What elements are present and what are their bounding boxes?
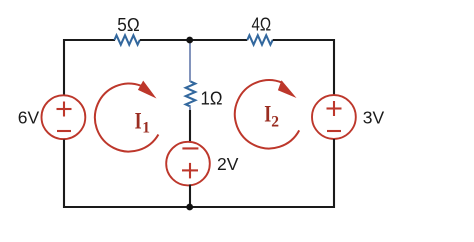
mesh current I2 arrowhead <box>278 80 297 98</box>
wire left lower <box>63 140 65 209</box>
6V minus sign <box>57 130 71 132</box>
wire middle (resistor to 2V source) <box>189 110 191 142</box>
3V minus sign <box>327 130 341 132</box>
wire left upper <box>63 39 65 96</box>
svg-text:I: I <box>135 108 142 133</box>
wire bottom <box>63 206 335 208</box>
svg-text:6V: 6V <box>18 108 40 128</box>
resistor 4Ω zigzag <box>247 35 272 44</box>
mesh current I2 arc <box>235 80 299 148</box>
node top junction dot <box>186 37 193 44</box>
resistor 5Ω zigzag <box>114 35 139 44</box>
3V plus sign <box>327 107 342 109</box>
mesh current I1 arrowhead <box>138 81 157 99</box>
wire middle (2V source to bottom node) <box>189 185 191 208</box>
wire top-middle segment <box>140 39 248 41</box>
svg-text:I: I <box>264 101 271 126</box>
svg-text:2V: 2V <box>217 154 239 174</box>
2V plus sign <box>182 169 198 171</box>
svg-text:1Ω: 1Ω <box>201 89 223 109</box>
wire top-right segment <box>273 39 335 41</box>
wire middle lead (blue) <box>189 41 191 82</box>
node bottom junction dot <box>186 204 193 211</box>
mesh current I1 arc <box>95 84 158 152</box>
wire right upper <box>333 39 335 95</box>
wire right lower <box>333 139 335 208</box>
svg-text:4Ω: 4Ω <box>252 15 272 35</box>
svg-text:3V: 3V <box>363 108 385 128</box>
voltage source 6V circle <box>42 95 86 139</box>
2V minus sign <box>182 147 198 149</box>
voltage source 3V circle <box>312 95 356 139</box>
svg-text:1: 1 <box>142 120 150 137</box>
wire top-left segment <box>63 39 115 41</box>
6V plus sign <box>57 108 72 110</box>
voltage source 2V circle <box>166 142 210 186</box>
resistor 1Ω zigzag <box>186 82 196 107</box>
svg-text:5Ω: 5Ω <box>117 15 139 35</box>
svg-text:2: 2 <box>271 114 279 131</box>
wire stub below 1Ω (light blue) <box>189 107 191 112</box>
